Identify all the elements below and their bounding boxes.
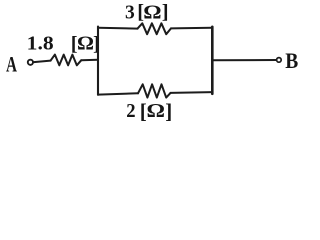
- svg-text:Ω: Ω: [77, 34, 94, 55]
- wire top branch right: [171, 27, 212, 30]
- svg-text:A: A: [6, 52, 17, 77]
- terminal B: [277, 58, 282, 63]
- wire left junction bus: [97, 27, 99, 95]
- svg-text:B: B: [285, 48, 298, 73]
- resistor R2: [138, 23, 172, 34]
- svg-text:]: ]: [162, 1, 169, 23]
- wire top branch left: [98, 27, 138, 30]
- svg-text:Ω: Ω: [143, 2, 161, 23]
- value label 1.8 [Ω]: [27, 33, 100, 55]
- svg-text:Ω: Ω: [147, 101, 166, 122]
- svg-text:2: 2: [126, 101, 135, 122]
- wire bottom branch right: [171, 91, 213, 94]
- resistor R1: [51, 55, 82, 66]
- wire R1 to junction: [81, 59, 98, 62]
- wire right junction bus: [211, 27, 214, 94]
- wire to B: [212, 59, 276, 61]
- svg-text:]: ]: [165, 99, 172, 123]
- terminal A: [28, 60, 33, 65]
- resistor R3: [138, 84, 171, 97]
- value label 2 [Ω]: [126, 99, 172, 123]
- wire bottom branch left: [98, 93, 138, 94]
- value label 3 [Ω]: [125, 1, 169, 24]
- svg-text:1.8: 1.8: [27, 34, 54, 55]
- wire A to R1: [34, 61, 51, 63]
- svg-text:3: 3: [125, 2, 135, 23]
